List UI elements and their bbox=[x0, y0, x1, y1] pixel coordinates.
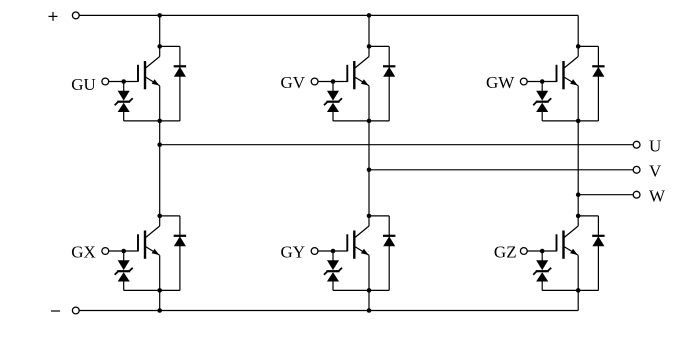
wire GU emitter bbox=[159, 86, 161, 121]
terminal - (open circle) bbox=[72, 307, 79, 314]
wire GV collector bbox=[368, 46, 370, 56]
label + (positive DC terminal) bbox=[49, 15, 58, 17]
node GW emitter bbox=[576, 119, 581, 124]
zener pair GW (gate protection) bbox=[533, 82, 551, 121]
wire leg2 top (bus to GV collector) bbox=[368, 15, 370, 46]
wire leg3 mid (GW emitter to GZ collector) bbox=[577, 121, 579, 216]
node bottom bus / leg1 bbox=[157, 308, 162, 313]
node GV collector bbox=[367, 44, 372, 49]
node GX gate junction bbox=[121, 249, 126, 254]
transistor GV (IGBT) bbox=[347, 57, 369, 90]
wire GX collector bbox=[159, 216, 161, 226]
wire leg3 bottom (GZ emitter to DC- bus corner) bbox=[577, 290, 579, 310]
diode GY freewheel bbox=[369, 216, 395, 291]
node W (leg3 output junction) bbox=[576, 192, 581, 197]
label - (negative DC terminal) bbox=[51, 310, 60, 312]
terminal + (open circle) bbox=[72, 12, 79, 19]
node V (leg2 output junction) bbox=[367, 168, 372, 173]
wire bottom DC- bus bbox=[79, 310, 578, 312]
wire leg2 bottom (GY emitter to DC- bus) bbox=[368, 290, 370, 310]
wire GV gate lead bbox=[318, 81, 347, 83]
svg-text:V: V bbox=[649, 161, 662, 180]
node GW gate junction bbox=[540, 79, 545, 84]
wire GX emitter bbox=[159, 255, 161, 290]
node GV emitter bbox=[367, 119, 372, 124]
svg-text:GZ: GZ bbox=[494, 242, 517, 261]
wire GW zener to emitter bbox=[542, 120, 578, 122]
wire top DC+ bus bbox=[79, 14, 578, 16]
wire leg1 bottom (GX emitter to DC- bus) bbox=[159, 290, 161, 310]
node GX collector bbox=[157, 214, 162, 219]
terminal GZ gate (open circle) bbox=[520, 248, 527, 255]
node GU emitter bbox=[157, 119, 162, 124]
node top bus / leg2 bbox=[367, 13, 372, 18]
node GZ gate junction bbox=[540, 249, 545, 254]
wire GW emitter bbox=[577, 86, 579, 121]
svg-text:GY: GY bbox=[281, 243, 306, 262]
zener pair GV (gate protection) bbox=[324, 82, 342, 121]
wire GV emitter bbox=[368, 86, 370, 121]
terminal GV gate (open circle) bbox=[311, 78, 318, 85]
terminal U (open circle) bbox=[633, 141, 640, 148]
wire output U bbox=[160, 144, 634, 146]
wire leg1 top (bus to GU collector) bbox=[159, 15, 161, 46]
transistor GY (IGBT) bbox=[347, 226, 369, 259]
node bottom bus / leg2 bbox=[367, 308, 372, 313]
wire GZ zener to emitter bbox=[542, 289, 578, 291]
node top bus / leg1 bbox=[157, 13, 162, 18]
wire GZ collector bbox=[577, 216, 579, 226]
transistor GX (IGBT) bbox=[138, 226, 160, 259]
wire GU zener to emitter bbox=[124, 120, 160, 122]
transistor GW (IGBT) bbox=[557, 57, 579, 90]
node GY gate junction bbox=[331, 249, 336, 254]
svg-text:GW: GW bbox=[486, 73, 515, 92]
wire GY collector bbox=[368, 216, 370, 226]
zener pair GX (gate protection) bbox=[115, 251, 133, 290]
wire GU gate lead bbox=[109, 81, 138, 83]
diode GX freewheel bbox=[160, 216, 186, 291]
zener pair GU (gate protection) bbox=[115, 82, 133, 121]
node GW collector bbox=[576, 44, 581, 49]
terminal V (open circle) bbox=[633, 166, 640, 173]
svg-text:GX: GX bbox=[71, 242, 96, 261]
node GY collector bbox=[367, 214, 372, 219]
wire leg1 mid (GU emitter to GX collector) bbox=[159, 121, 161, 216]
node GU collector bbox=[157, 44, 162, 49]
diode GZ freewheel bbox=[578, 216, 604, 291]
svg-text:U: U bbox=[649, 136, 661, 155]
wire GW gate lead bbox=[527, 81, 556, 83]
diode GU freewheel bbox=[160, 46, 186, 121]
zener pair GY (gate protection) bbox=[324, 251, 342, 290]
wire leg2 mid (GV emitter to GY collector) bbox=[368, 121, 370, 216]
wire GY emitter bbox=[368, 255, 370, 290]
wire output W bbox=[578, 194, 633, 196]
svg-text:GU: GU bbox=[71, 75, 96, 94]
wire GX gate lead bbox=[109, 250, 138, 252]
node GX emitter bbox=[157, 288, 162, 293]
node GU gate junction bbox=[121, 79, 126, 84]
wire GZ emitter bbox=[577, 255, 579, 290]
node GZ emitter bbox=[576, 288, 581, 293]
wire GY gate lead bbox=[318, 250, 347, 252]
node U (leg1 output junction) bbox=[157, 142, 162, 147]
node GY emitter bbox=[367, 288, 372, 293]
transistor GU (IGBT) bbox=[138, 57, 160, 90]
wire GU collector bbox=[159, 46, 161, 56]
wire leg3 top (bus corner to GW collector) bbox=[577, 15, 579, 46]
svg-text:W: W bbox=[649, 186, 666, 205]
transistor GZ (IGBT) bbox=[557, 226, 579, 259]
wire output V bbox=[369, 169, 633, 171]
diode GV freewheel bbox=[369, 46, 395, 121]
diode GW freewheel bbox=[578, 46, 604, 121]
node GZ collector bbox=[576, 214, 581, 219]
svg-text:GV: GV bbox=[281, 73, 306, 92]
wire GW collector bbox=[577, 46, 579, 56]
terminal GW gate (open circle) bbox=[520, 78, 527, 85]
wire GV zener to emitter bbox=[333, 120, 369, 122]
node GV gate junction bbox=[331, 79, 336, 84]
terminal GY gate (open circle) bbox=[311, 248, 318, 255]
wire GX zener to emitter bbox=[124, 289, 160, 291]
wire GZ gate lead bbox=[527, 250, 556, 252]
terminal GU gate (open circle) bbox=[102, 78, 109, 85]
terminal W (open circle) bbox=[633, 191, 640, 198]
wire GY zener to emitter bbox=[333, 289, 369, 291]
zener pair GZ (gate protection) bbox=[533, 251, 551, 290]
terminal GX gate (open circle) bbox=[102, 248, 109, 255]
